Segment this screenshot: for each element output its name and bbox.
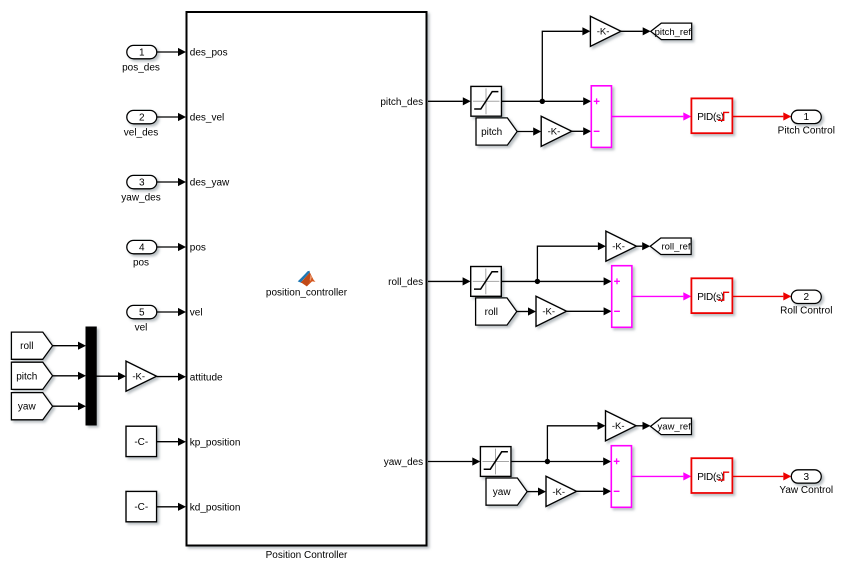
svg-text:3: 3	[139, 177, 145, 188]
saturation roll	[471, 267, 502, 297]
from tag yaw (inner)	[486, 478, 527, 505]
svg-text:vel_des: vel_des	[124, 128, 158, 139]
wire from-pitch to mux	[53, 375, 78, 377]
svg-text:2: 2	[139, 112, 145, 123]
sum roll	[612, 266, 632, 328]
inport 3 yaw_des	[127, 175, 157, 188]
svg-text:pos: pos	[133, 258, 149, 269]
wire from-roll to gain	[517, 311, 528, 313]
svg-text:yaw_des: yaw_des	[384, 457, 423, 468]
saturation yaw	[480, 447, 511, 477]
svg-text:des_pos: des_pos	[190, 48, 228, 59]
wire sum to PID roll (magenta)	[632, 295, 683, 297]
svg-text:Yaw Control: Yaw Control	[779, 485, 833, 496]
svg-text:-K-: -K-	[548, 127, 561, 138]
PID controller pitch	[691, 98, 732, 133]
svg-text:des_vel: des_vel	[190, 113, 224, 124]
wire inport5 to vel	[157, 311, 178, 313]
outport 2 Roll Control	[791, 290, 821, 303]
svg-text:-K-: -K-	[612, 242, 625, 253]
svg-text:1: 1	[139, 47, 145, 58]
outport 3 Yaw Control	[791, 470, 821, 483]
svg-text:yaw: yaw	[18, 402, 37, 413]
svg-text:Position Controller: Position Controller	[266, 550, 348, 561]
constant kd_position	[126, 491, 157, 521]
sum yaw	[611, 446, 631, 508]
from tag yaw	[11, 393, 52, 420]
svg-text:kd_position: kd_position	[190, 503, 241, 514]
svg-text:pitch: pitch	[481, 127, 502, 138]
PID controller yaw	[691, 458, 732, 493]
wire inport4 to pos	[157, 246, 178, 248]
svg-text:pos_des: pos_des	[122, 63, 160, 74]
wire PID to outport roll (red)	[733, 295, 784, 297]
svg-text:roll_des: roll_des	[388, 277, 423, 288]
svg-text:2: 2	[804, 292, 810, 303]
wire from-yaw to mux	[53, 405, 78, 407]
svg-text:roll_ref: roll_ref	[661, 242, 690, 253]
MATLAB function icon	[298, 271, 316, 287]
goto tag yaw_ref	[651, 418, 692, 435]
wire sum to PID yaw (magenta)	[632, 475, 684, 477]
from tag roll	[11, 332, 52, 359]
wire from-pitch to gain	[517, 131, 533, 133]
wire constant to kd_position	[157, 506, 178, 508]
svg-text:yaw_des: yaw_des	[121, 193, 160, 204]
wire PID to outport yaw (red)	[733, 475, 784, 477]
wire PID to outport pitch (red)	[733, 116, 784, 118]
svg-text:yaw: yaw	[493, 487, 512, 498]
svg-text:pitch_ref: pitch_ref	[655, 27, 692, 38]
PID controller roll	[691, 278, 732, 313]
wire saturation to sum pitch	[502, 100, 584, 102]
wire mux to gain	[96, 375, 118, 377]
wire branch up to gain yaw_ref	[547, 426, 597, 462]
svg-text:PID(s): PID(s)	[697, 292, 724, 303]
svg-text:3: 3	[804, 472, 810, 483]
svg-text:4: 4	[139, 242, 145, 253]
wire saturation to sum roll	[501, 280, 603, 282]
svg-text:pitch: pitch	[16, 371, 37, 382]
svg-text:PID(s): PID(s)	[697, 472, 724, 483]
wire gain to goto pitch_ref	[621, 30, 643, 32]
wire branch up to gain pitch_ref	[542, 31, 582, 101]
mux	[86, 327, 96, 425]
wire gain to goto yaw_ref	[636, 425, 642, 427]
gain K roll_ref	[606, 231, 637, 261]
wire branch up to gain roll_ref	[537, 246, 598, 281]
wire saturation to sum yaw	[511, 461, 603, 463]
wire roll_des to saturation	[428, 280, 463, 282]
svg-text:yaw_ref: yaw_ref	[658, 422, 692, 433]
svg-text:des_yaw: des_yaw	[190, 178, 230, 189]
wire constant to kp_position	[157, 441, 178, 443]
gain K pitch	[541, 116, 572, 146]
gain K yaw	[546, 476, 577, 506]
svg-text:roll: roll	[20, 341, 33, 352]
wire inport1 to des_pos	[157, 51, 178, 53]
outport 1 Pitch Control	[791, 110, 821, 123]
wire gain to sum minus roll	[567, 310, 604, 312]
wire yaw_des to saturation	[428, 461, 472, 463]
wire pitch_des to saturation	[428, 100, 463, 102]
from tag pitch	[11, 362, 52, 389]
svg-text:PID(s): PID(s)	[697, 112, 724, 123]
inport 2 vel_des	[127, 110, 157, 123]
svg-text:-C-: -C-	[134, 437, 148, 448]
saturation pitch	[471, 86, 502, 116]
svg-text:kp_position: kp_position	[190, 438, 241, 449]
svg-text:5: 5	[139, 307, 145, 318]
svg-text:pos: pos	[190, 243, 206, 254]
svg-text:vel: vel	[135, 323, 148, 334]
node junction pitch	[540, 99, 545, 104]
svg-text:-K-: -K-	[552, 487, 565, 498]
svg-text:roll: roll	[485, 307, 498, 318]
svg-text:-C-: -C-	[134, 502, 148, 513]
svg-text:-K-: -K-	[542, 307, 555, 318]
wire sum to PID pitch (magenta)	[612, 116, 684, 118]
wire inport2 to des_vel	[157, 116, 178, 118]
node junction roll	[535, 279, 540, 284]
svg-text:vel: vel	[190, 308, 203, 319]
wire gain to sum minus pitch	[572, 130, 583, 132]
wire from-yaw to gain	[527, 491, 538, 493]
gain K pitch_ref	[590, 16, 621, 46]
svg-text:Pitch Control: Pitch Control	[778, 125, 835, 136]
gain K roll	[536, 296, 567, 326]
wire gain to attitude	[157, 376, 178, 378]
inport 4 pos	[127, 240, 157, 253]
subsystem Position Controller	[187, 12, 427, 546]
inport 1 pos_des	[127, 45, 157, 58]
svg-text:-K-: -K-	[132, 372, 145, 383]
constant kp_position	[126, 426, 157, 456]
svg-text:Roll Control: Roll Control	[780, 305, 832, 316]
wire from-roll to mux	[53, 345, 78, 347]
node junction yaw	[545, 459, 550, 464]
svg-text:attitude: attitude	[190, 373, 223, 384]
gain K yaw_ref	[606, 411, 637, 441]
wire inport3 to des_yaw	[157, 181, 178, 183]
sum pitch	[591, 86, 611, 148]
svg-text:-K-: -K-	[612, 421, 625, 432]
wire gain to goto roll_ref	[637, 245, 643, 247]
from tag pitch (inner)	[476, 118, 517, 145]
goto tag roll_ref	[650, 238, 691, 255]
svg-text:1: 1	[804, 112, 810, 123]
wire gain to sum minus yaw	[577, 490, 604, 492]
inport 5 vel	[127, 305, 157, 318]
goto tag pitch_ref	[651, 23, 692, 39]
svg-text:pitch_des: pitch_des	[380, 97, 423, 108]
svg-text:-K-: -K-	[597, 27, 610, 38]
svg-text:position_controller: position_controller	[266, 288, 348, 299]
gain K attitude	[126, 361, 157, 391]
from tag roll (inner)	[476, 298, 517, 325]
